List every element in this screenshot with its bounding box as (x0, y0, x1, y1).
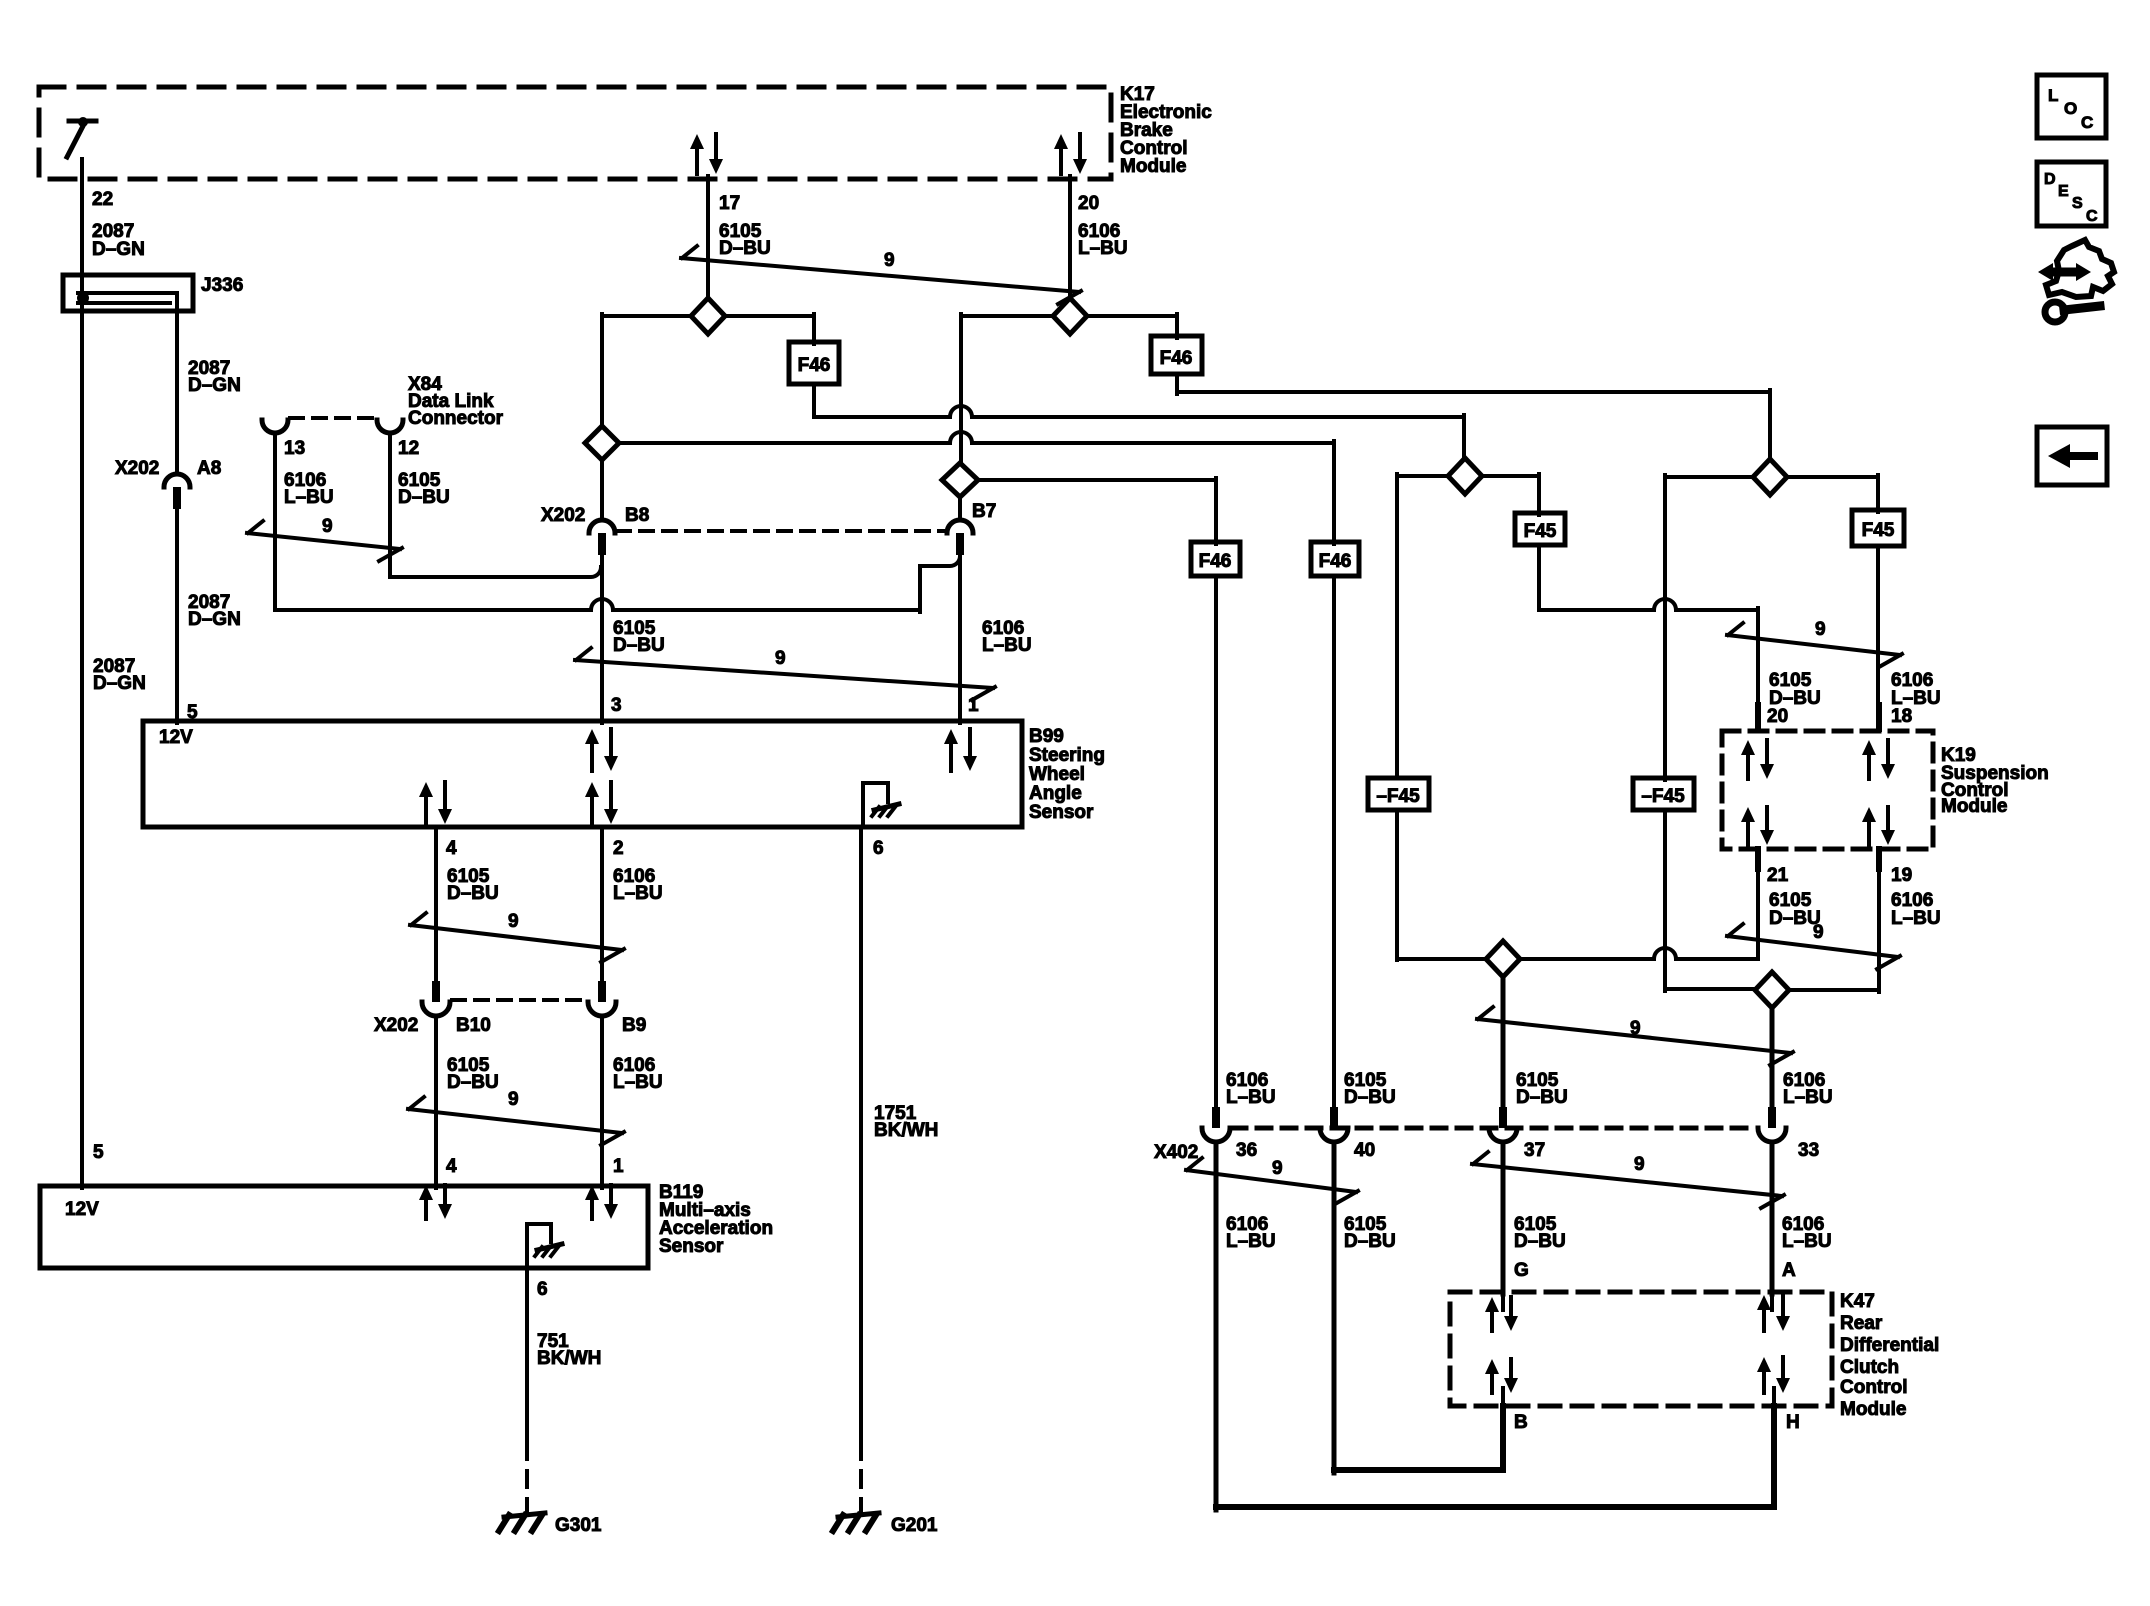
svg-text:E: E (2058, 183, 2069, 200)
svg-text:G201: G201 (891, 1515, 938, 1536)
svg-text:S: S (2072, 195, 2083, 212)
svg-text:L–BU: L–BU (1226, 1231, 1276, 1252)
svg-text:13: 13 (284, 438, 305, 459)
svg-text:G301: G301 (555, 1515, 602, 1536)
svg-text:Sensor: Sensor (659, 1236, 724, 1257)
svg-text:A8: A8 (197, 458, 221, 479)
svg-text:BK/WH: BK/WH (874, 1120, 938, 1141)
svg-text:B99: B99 (1029, 726, 1064, 747)
svg-text:D–BU: D–BU (398, 487, 450, 508)
svg-text:C: C (2081, 113, 2093, 132)
svg-text:X402: X402 (1154, 1142, 1198, 1163)
svg-text:D–BU: D–BU (1514, 1231, 1566, 1252)
svg-text:5: 5 (93, 1142, 104, 1163)
svg-text:21: 21 (1767, 865, 1789, 886)
svg-text:1: 1 (968, 695, 979, 716)
svg-text:Rear: Rear (1840, 1313, 1883, 1334)
svg-text:F46: F46 (1319, 551, 1352, 572)
svg-text:C: C (2086, 208, 2098, 225)
svg-text:9: 9 (1815, 619, 1826, 640)
svg-text:9: 9 (322, 516, 333, 537)
svg-text:12: 12 (398, 438, 419, 459)
svg-text:F45: F45 (1524, 521, 1557, 542)
svg-text:D–BU: D–BU (1344, 1087, 1396, 1108)
svg-text:L–BU: L–BU (1891, 908, 1941, 929)
svg-text:BK/WH: BK/WH (537, 1348, 601, 1369)
svg-text:37: 37 (1524, 1140, 1545, 1161)
svg-text:20: 20 (1767, 706, 1788, 727)
svg-text:K47: K47 (1840, 1291, 1875, 1312)
svg-text:D–BU: D–BU (719, 238, 771, 259)
svg-text:B8: B8 (625, 505, 649, 526)
svg-text:Module: Module (1120, 156, 1187, 177)
svg-text:D–BU: D–BU (447, 883, 499, 904)
svg-text:L–BU: L–BU (284, 487, 334, 508)
svg-text:12V: 12V (159, 727, 193, 748)
svg-text:Sensor: Sensor (1029, 802, 1094, 823)
svg-text:9: 9 (775, 648, 786, 669)
svg-text:4: 4 (446, 838, 457, 859)
svg-text:Connector: Connector (408, 408, 504, 429)
svg-text:X202: X202 (374, 1015, 418, 1036)
svg-text:D–GN: D–GN (188, 375, 241, 396)
svg-text:–F45: –F45 (1376, 786, 1420, 807)
svg-text:D–BU: D–BU (1516, 1087, 1568, 1108)
svg-text:F46: F46 (1199, 551, 1232, 572)
svg-text:22: 22 (92, 189, 113, 210)
svg-text:F46: F46 (1160, 348, 1193, 369)
svg-text:F45: F45 (1862, 520, 1895, 541)
svg-text:9: 9 (1813, 922, 1824, 943)
svg-text:40: 40 (1354, 1140, 1375, 1161)
svg-text:D–GN: D–GN (93, 673, 146, 694)
svg-text:Clutch: Clutch (1840, 1357, 1899, 1378)
svg-text:9: 9 (1630, 1018, 1641, 1039)
svg-text:9: 9 (1634, 1154, 1645, 1175)
svg-text:L–BU: L–BU (613, 1072, 663, 1093)
svg-text:X202: X202 (541, 505, 585, 526)
svg-text:–F45: –F45 (1641, 786, 1685, 807)
svg-text:X202: X202 (115, 458, 159, 479)
svg-text:36: 36 (1236, 1140, 1257, 1161)
svg-text:B: B (1514, 1412, 1528, 1433)
svg-text:D–GN: D–GN (92, 239, 145, 260)
svg-text:18: 18 (1891, 706, 1912, 727)
svg-text:O: O (2064, 99, 2077, 118)
svg-text:Angle: Angle (1029, 783, 1082, 804)
svg-text:4: 4 (446, 1156, 457, 1177)
svg-text:9: 9 (884, 250, 895, 271)
svg-text:1: 1 (613, 1156, 624, 1177)
svg-text:6: 6 (873, 838, 884, 859)
svg-text:9: 9 (508, 911, 519, 932)
svg-text:D: D (2044, 171, 2056, 188)
svg-text:Steering: Steering (1029, 745, 1105, 766)
svg-text:L: L (2048, 86, 2058, 105)
svg-text:Module: Module (1941, 796, 2008, 817)
svg-text:A: A (1782, 1260, 1796, 1281)
svg-text:H: H (1786, 1412, 1800, 1433)
svg-text:L–BU: L–BU (1783, 1087, 1833, 1108)
svg-text:B9: B9 (622, 1015, 646, 1036)
svg-text:D–GN: D–GN (188, 609, 241, 630)
svg-text:D–BU: D–BU (447, 1072, 499, 1093)
svg-text:D–BU: D–BU (1344, 1231, 1396, 1252)
svg-text:19: 19 (1891, 865, 1912, 886)
svg-text:33: 33 (1798, 1140, 1819, 1161)
svg-text:L–BU: L–BU (1782, 1231, 1832, 1252)
svg-text:Control: Control (1840, 1377, 1908, 1398)
svg-text:B10: B10 (456, 1015, 491, 1036)
svg-text:F46: F46 (798, 355, 831, 376)
svg-text:20: 20 (1078, 193, 1099, 214)
svg-text:3: 3 (611, 695, 622, 716)
svg-text:J336: J336 (201, 275, 243, 296)
svg-text:2: 2 (613, 838, 624, 859)
svg-text:L–BU: L–BU (982, 635, 1032, 656)
svg-text:L–BU: L–BU (613, 883, 663, 904)
svg-text:9: 9 (508, 1089, 519, 1110)
svg-text:Wheel: Wheel (1029, 764, 1085, 785)
svg-text:17: 17 (719, 193, 740, 214)
svg-text:6: 6 (537, 1279, 548, 1300)
svg-text:B7: B7 (972, 501, 996, 522)
svg-text:Module: Module (1840, 1399, 1907, 1420)
svg-text:D–BU: D–BU (613, 635, 665, 656)
svg-text:Differential: Differential (1840, 1335, 1939, 1356)
svg-text:G: G (1514, 1260, 1529, 1281)
svg-text:L–BU: L–BU (1078, 238, 1128, 259)
svg-text:L–BU: L–BU (1226, 1087, 1276, 1108)
svg-text:12V: 12V (65, 1199, 99, 1220)
svg-text:9: 9 (1272, 1158, 1283, 1179)
